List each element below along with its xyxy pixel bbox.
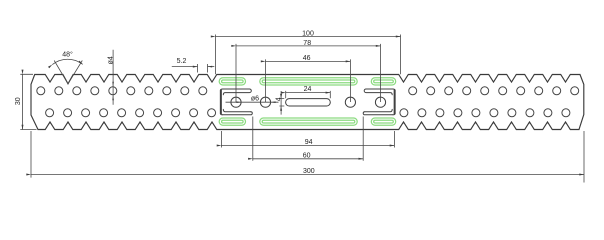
plate hole 1 [231, 97, 241, 107]
dim 30 line [22, 74, 24, 129]
clamp plate left hook lower finger top line with curl [223, 109, 251, 111]
dim 94 extension lines [221, 131, 394, 148]
svg-text:30: 30 [15, 97, 22, 105]
dim 4 arrows outside [280, 91, 282, 99]
dim 24 line [286, 92, 331, 94]
dim 78 line [236, 45, 381, 47]
dim 30 extension lines [20, 74, 36, 129]
clamp plate left hook spine corners [221, 89, 223, 115]
green slot bottom-right [371, 118, 395, 125]
clamp plate right hook lower finger top line with curl [365, 109, 393, 111]
svg-text:48°: 48° [62, 51, 73, 59]
dim 100 extension lines [216, 35, 401, 75]
green slot top-middle [260, 78, 357, 85]
central slot [286, 99, 331, 106]
plate hole 4 [375, 97, 385, 107]
dim 300 line [31, 174, 584, 176]
dim 300 extension lines [31, 131, 584, 183]
clamp plate right hook spine corners [393, 89, 395, 115]
svg-text:ø6: ø6 [251, 95, 259, 102]
clamp plate right hook spine [394, 90, 396, 113]
dim 46 line [266, 60, 351, 62]
dim 78 extension lines [236, 44, 381, 102]
clamp plate left hook lower finger [223, 112, 253, 115]
clamp plate left hook upper finger [223, 89, 252, 95]
angle 48 extension lines [54, 61, 82, 84]
dia4 leader line [112, 50, 114, 105]
clamp plate right hook upper finger [364, 89, 393, 95]
green slot bottom-middle [260, 118, 357, 125]
plate hole 3 [345, 97, 355, 107]
svg-text:4: 4 [275, 97, 282, 101]
svg-text:5.2: 5.2 [177, 58, 187, 65]
svg-text:78: 78 [303, 40, 311, 47]
dim 60 line [253, 158, 363, 160]
dim 94 line [221, 145, 394, 147]
angle 48 arc [52, 59, 82, 64]
svg-text:100: 100 [302, 30, 314, 37]
bottom row small holes [46, 109, 570, 117]
svg-text:94: 94 [305, 139, 313, 146]
svg-text:24: 24 [304, 86, 312, 93]
top row small holes [37, 87, 579, 95]
dim 60 extension lines [253, 117, 363, 161]
green slot top-right [371, 78, 395, 85]
svg-text:60: 60 [303, 153, 311, 160]
dim 5.2 extension lines [198, 64, 208, 73]
clamp plate left hook spine [220, 90, 222, 113]
plate hole 2 [260, 97, 270, 107]
svg-text:46: 46 [303, 55, 311, 62]
dia6 leader through holes 1-2 [226, 101, 279, 103]
rail body outline with teeth [31, 75, 584, 130]
dim 4 extension lines [279, 99, 284, 106]
dim 100 line [216, 36, 401, 38]
green slot top-left [219, 78, 245, 85]
dim 24 extension lines [286, 91, 331, 98]
dim 5.2 arrows outside [172, 66, 198, 68]
dim 46 extension lines [266, 59, 351, 102]
svg-text:300: 300 [303, 168, 315, 175]
green slot bottom-left [219, 118, 245, 125]
clamp plate right hook lower finger [363, 112, 393, 115]
svg-text:ø4: ø4 [108, 56, 115, 64]
